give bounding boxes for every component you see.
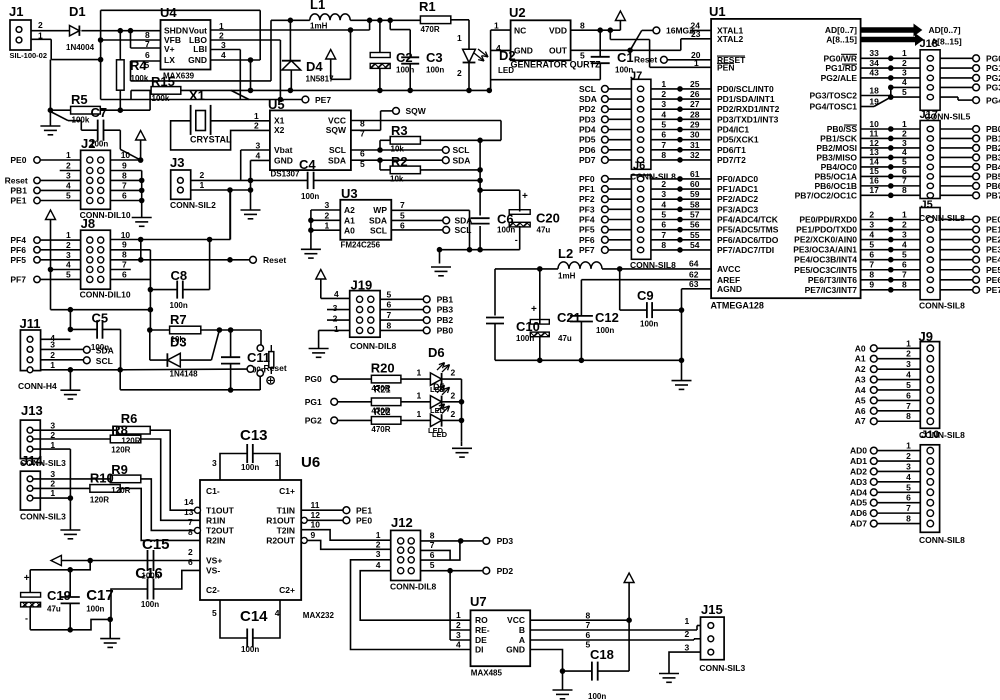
power arrow U7 (624, 573, 634, 583)
svg-text:100n: 100n (588, 692, 606, 700)
ground (132, 217, 152, 219)
svg-text:C4: C4 (299, 157, 316, 172)
junction (448, 568, 453, 573)
connector J14 (20, 471, 40, 510)
svg-text:2: 2 (333, 313, 338, 323)
J6 hole 2 (637, 186, 643, 191)
wire diagonal to VCC stem (120, 149, 140, 160)
J17 hole 7 (927, 183, 933, 188)
wire to J7 (608, 88, 631, 90)
vcc rail vertical (479, 140, 481, 215)
bus A[8..15] (861, 37, 918, 43)
svg-text:SIL-100-02: SIL-100-02 (10, 51, 48, 60)
svg-text:26: 26 (690, 89, 700, 99)
J7 hole 3 (637, 107, 643, 112)
svg-text:100n: 100n (91, 343, 109, 352)
svg-text:CRYSTAL: CRYSTAL (190, 135, 232, 145)
svg-text:1: 1 (325, 221, 330, 231)
svg-text:AGND: AGND (717, 284, 742, 294)
svg-text:PD2: PD2 (497, 566, 514, 576)
svg-text:PE1/PDO/TXD0: PE1/PDO/TXD0 (796, 225, 857, 235)
svg-text:6: 6 (122, 190, 127, 200)
J12 pin4 wire to RO (360, 571, 470, 621)
svg-text:7: 7 (869, 260, 874, 270)
terminal PE5 (940, 269, 973, 271)
svg-text:SDA: SDA (579, 94, 597, 104)
junction (228, 388, 233, 393)
svg-text:3: 3 (906, 359, 911, 369)
connector J6 (631, 175, 651, 259)
gnd line (440, 249, 520, 251)
svg-text:A2: A2 (344, 205, 355, 215)
wire A7 to J9 pin 8 (877, 420, 920, 422)
svg-text:PE5/OC3C/INT5: PE5/OC3C/INT5 (794, 265, 857, 275)
svg-text:2: 2 (219, 31, 224, 41)
svg-text:3: 3 (66, 250, 71, 260)
wire VFB node down to long line (100, 60, 102, 100)
svg-text:AD5: AD5 (850, 498, 867, 508)
svg-text:33: 33 (869, 48, 879, 58)
svg-text:CONN-SIL3: CONN-SIL3 (20, 458, 66, 468)
svg-text:C18: C18 (590, 647, 614, 662)
svg-text:20: 20 (691, 50, 701, 60)
svg-text:7: 7 (906, 401, 911, 411)
svg-text:CONN-H4: CONN-H4 (18, 381, 57, 391)
J17 hole 1 (927, 126, 933, 131)
svg-text:11: 11 (311, 500, 320, 510)
svg-text:J12: J12 (391, 515, 413, 530)
junction (679, 358, 684, 363)
svg-text:A0: A0 (855, 343, 866, 353)
svg-text:A2: A2 (855, 364, 866, 374)
wire A4 to J9 pin 5 (877, 389, 920, 391)
svg-text:5: 5 (66, 269, 71, 279)
svg-text:PD1/SDA/INT1: PD1/SDA/INT1 (717, 94, 775, 104)
wire A1 to J9 pin 2 (877, 358, 920, 360)
svg-text:A4: A4 (855, 385, 866, 395)
wire A pins gnd (310, 210, 312, 249)
svg-text:4: 4 (661, 199, 666, 209)
terminal PE6 (940, 279, 973, 281)
svg-text:PF2/ADC2: PF2/ADC2 (717, 194, 758, 204)
svg-text:C19: C19 (47, 588, 71, 603)
svg-text:1N4004: 1N4004 (66, 43, 95, 52)
svg-text:GENERATOR QURTZ: GENERATOR QURTZ (511, 60, 602, 70)
junction (68, 628, 73, 633)
wire AD6 to J10 pin 7 (877, 512, 920, 514)
J10 hole 7 (927, 510, 934, 517)
svg-text:55: 55 (690, 230, 700, 240)
wire U5 GND (251, 159, 270, 161)
svg-text:MAX232: MAX232 (303, 611, 335, 620)
svg-text:9: 9 (122, 240, 127, 250)
svg-text:4: 4 (66, 180, 71, 190)
wire A0 to J9 pin 1 (877, 347, 920, 349)
svg-text:3: 3 (685, 643, 690, 653)
wire to LED (401, 401, 431, 403)
svg-text:PB3: PB3 (437, 305, 454, 315)
svg-text:1N4148: 1N4148 (170, 370, 199, 379)
svg-text:PE0: PE0 (10, 155, 26, 165)
svg-text:4: 4 (275, 608, 280, 618)
svg-text:4: 4 (221, 50, 226, 60)
wire L1 right (350, 19, 420, 21)
svg-text:5: 5 (430, 560, 435, 570)
junction (88, 558, 93, 563)
svg-text:PF0: PF0 (579, 174, 595, 184)
svg-text:XTAL2: XTAL2 (717, 34, 744, 44)
svg-text:PD6/T1: PD6/T1 (717, 145, 746, 155)
ground (301, 248, 321, 250)
svg-text:PE0: PE0 (986, 215, 1000, 225)
J6 hole 7 (637, 237, 643, 242)
svg-text:PB1: PB1 (437, 294, 454, 304)
svg-text:SDA: SDA (369, 216, 387, 226)
svg-text:R1OUT: R1OUT (266, 516, 296, 526)
svg-text:4: 4 (902, 239, 907, 249)
svg-text:SDA: SDA (453, 156, 471, 166)
svg-text:AD1: AD1 (850, 456, 867, 466)
wire to J7 (608, 118, 631, 120)
svg-text:J2: J2 (81, 136, 95, 151)
junction (138, 158, 143, 163)
svg-text:PF1: PF1 (579, 184, 595, 194)
wire R2 right (420, 169, 480, 171)
J7 hole 2 (637, 96, 643, 101)
wire L2 right (602, 268, 620, 270)
J9 hole 4 (927, 376, 934, 383)
svg-text:GND: GND (274, 156, 293, 166)
junction (478, 188, 483, 193)
svg-text:+: + (531, 304, 537, 315)
wire LX to L1 (131, 60, 161, 62)
svg-text:Vout: Vout (189, 26, 207, 36)
J12 pin3 wire to DI (351, 560, 471, 650)
svg-text:6: 6 (145, 50, 150, 60)
svg-text:AD0: AD0 (850, 446, 867, 456)
junction (48, 108, 53, 113)
junction (118, 28, 123, 33)
svg-text:PD4/IC1: PD4/IC1 (717, 125, 749, 135)
svg-text:CONN-SIL2: CONN-SIL2 (170, 200, 216, 210)
svg-text:8: 8 (387, 320, 392, 330)
svg-text:24: 24 (691, 21, 701, 31)
terminal PG1 (940, 67, 973, 69)
power arrow U4 Vout (326, 50, 336, 60)
wire R5 left (50, 109, 70, 111)
svg-text:470R: 470R (371, 425, 390, 434)
wire VS+ line (61, 560, 200, 562)
wire rail up left (119, 370, 121, 390)
junction (538, 358, 543, 363)
svg-text:PF2: PF2 (579, 194, 595, 204)
connector J5 (920, 208, 940, 300)
J7 hole 6 (637, 137, 643, 142)
wire Reset line (120, 368, 247, 371)
terminal SQW (393, 108, 400, 115)
svg-text:PF5/ADC5/TMS: PF5/ADC5/TMS (717, 225, 779, 235)
junction (68, 568, 73, 573)
svg-text:CONN-SIL3: CONN-SIL3 (699, 663, 745, 673)
junction (248, 188, 253, 193)
svg-text:C12: C12 (595, 310, 619, 325)
svg-text:CONN-DIL10: CONN-DIL10 (80, 290, 131, 300)
svg-text:VS-: VS- (206, 566, 220, 576)
svg-text:J10: J10 (921, 429, 939, 441)
LED D6 (430, 373, 441, 385)
svg-text:VCC: VCC (328, 116, 346, 126)
svg-text:PG2: PG2 (986, 73, 1000, 83)
junction (68, 327, 73, 332)
terminal PB2 (940, 147, 973, 149)
wire D3 anode (180, 359, 211, 361)
svg-text:8: 8 (580, 21, 585, 31)
svg-text:2: 2 (456, 620, 461, 630)
svg-text:T2OUT: T2OUT (206, 526, 235, 536)
junction (478, 178, 483, 183)
wire C13 right (253, 454, 280, 481)
svg-text:A5: A5 (855, 395, 866, 405)
svg-text:C2+: C2+ (279, 585, 295, 595)
svg-text:6: 6 (400, 221, 405, 231)
svg-text:RO: RO (475, 615, 488, 625)
svg-text:PE0: PE0 (356, 516, 372, 526)
svg-text:2: 2 (325, 211, 330, 221)
svg-text:1: 1 (661, 79, 666, 89)
svg-text:PE1: PE1 (986, 225, 1000, 235)
svg-text:V+: V+ (164, 44, 175, 54)
wire VDD to PEN (609, 30, 611, 39)
svg-text:30: 30 (690, 130, 700, 140)
svg-text:PE2: PE2 (986, 235, 1000, 245)
J12 holes row 1 (398, 538, 404, 544)
wire to J6 (608, 198, 631, 200)
svg-text:63: 63 (689, 279, 699, 289)
svg-text:PE5: PE5 (986, 265, 1000, 275)
terminal PB1 (423, 296, 430, 303)
svg-text:B: B (519, 625, 525, 635)
svg-text:1: 1 (417, 409, 422, 419)
junction (487, 88, 492, 93)
svg-text:Reset: Reset (264, 363, 287, 373)
wire top feedback line (101, 9, 261, 11)
svg-text:7: 7 (122, 180, 127, 190)
power arrow J2 (136, 131, 146, 141)
svg-text:R1: R1 (419, 0, 436, 14)
svg-text:2: 2 (188, 547, 193, 557)
svg-text:SDA: SDA (455, 216, 473, 226)
junction (148, 307, 153, 312)
junction (288, 88, 293, 93)
wire to J6 (608, 229, 631, 231)
svg-text:A3: A3 (855, 375, 866, 385)
svg-text:2: 2 (685, 629, 690, 639)
wire J2 pins to gnd (141, 171, 143, 218)
svg-text:2: 2 (869, 209, 874, 219)
power arrow J19 (316, 270, 326, 280)
svg-text:PG3/TOSC2: PG3/TOSC2 (809, 91, 857, 101)
svg-text:3: 3 (376, 549, 381, 559)
svg-text:U6: U6 (301, 454, 320, 471)
wire R3 right (420, 139, 501, 141)
capacitor C1 (599, 30, 601, 57)
J5 hole 1 (927, 217, 933, 222)
svg-text:25: 25 (690, 79, 700, 89)
svg-text:LED: LED (430, 406, 446, 415)
svg-text:2: 2 (66, 161, 71, 171)
wire to J6 (608, 219, 631, 221)
wire J13.1 down (33, 448, 70, 450)
svg-text:R1IN: R1IN (206, 516, 225, 526)
svg-text:SHDN: SHDN (164, 26, 188, 36)
svg-text:3: 3 (869, 219, 874, 229)
svg-text:6: 6 (188, 557, 193, 567)
wire R9 to T2OUT (141, 479, 195, 531)
junction (627, 618, 632, 623)
svg-text:C3: C3 (426, 50, 443, 65)
wire R6 to T1OUT (150, 430, 194, 510)
svg-text:R21: R21 (374, 385, 391, 395)
svg-text:2: 2 (451, 390, 456, 400)
terminal Reset S1 (247, 366, 254, 373)
J2 holes row 4 (87, 187, 93, 193)
J11 pin4 wire (41, 338, 71, 340)
wire OUT to XTAL2 (680, 39, 682, 51)
terminal SCL (442, 147, 449, 154)
svg-text:2: 2 (451, 409, 456, 419)
terminal PE1 U6 (343, 507, 350, 514)
wire to J6 (608, 188, 631, 190)
svg-text:31: 31 (690, 140, 700, 150)
wire VFB branch down (100, 40, 102, 60)
wire R10 to R2IN (120, 488, 200, 540)
J6 hole 1 (637, 176, 643, 181)
svg-text:PE6: PE6 (986, 275, 1000, 285)
svg-text:8: 8 (122, 170, 127, 180)
svg-text:Reset: Reset (634, 55, 657, 65)
svg-text:32: 32 (690, 150, 700, 160)
J7 hole 7 (637, 147, 643, 152)
junction (378, 148, 383, 153)
terminal PE0 U6 (343, 517, 350, 524)
svg-text:T1IN: T1IN (277, 506, 295, 516)
J18 hole 2 (927, 65, 933, 70)
svg-text:PF5: PF5 (579, 225, 595, 235)
svg-text:64: 64 (689, 259, 699, 269)
svg-text:PB0: PB0 (437, 325, 454, 335)
wire AD1 to J10 pin 2 (877, 460, 920, 462)
junction (378, 88, 383, 93)
svg-text:120R: 120R (111, 486, 130, 495)
J8 holes row 3 (87, 257, 93, 263)
svg-text:A1: A1 (855, 354, 866, 364)
svg-text:1: 1 (275, 458, 280, 468)
wire C19 branch (30, 561, 90, 570)
wire to J7 (608, 149, 631, 151)
svg-text:9: 9 (122, 160, 127, 170)
wire AGND down (681, 289, 683, 361)
terminal SDA (442, 157, 449, 164)
svg-text:34: 34 (869, 58, 879, 68)
svg-text:PD0/SCL/INT0: PD0/SCL/INT0 (717, 84, 774, 94)
J9 hole 8 (927, 418, 934, 425)
junction (98, 57, 103, 62)
svg-text:7: 7 (661, 140, 666, 150)
svg-text:10k: 10k (390, 175, 404, 184)
svg-text:SCL: SCL (329, 145, 346, 155)
wire C4 right (314, 179, 481, 181)
svg-text:2: 2 (661, 89, 666, 99)
J5 hole 7 (927, 277, 933, 282)
svg-text:17: 17 (869, 185, 879, 195)
wire to J7 (608, 129, 631, 131)
svg-text:13: 13 (184, 507, 194, 517)
svg-text:J1: J1 (9, 4, 23, 19)
svg-text:1: 1 (200, 180, 205, 190)
junction (108, 617, 113, 622)
svg-text:PB7/OC2/OC1C: PB7/OC2/OC1C (795, 190, 857, 200)
power flag VS+ (51, 555, 61, 565)
svg-text:PF4: PF4 (579, 215, 595, 225)
junction (538, 267, 543, 272)
J19 pin1 wire (319, 329, 350, 331)
svg-text:5: 5 (902, 87, 907, 97)
terminal PG2 (940, 77, 973, 79)
J11 pin1 wire (41, 369, 121, 371)
J7 hole 8 (637, 157, 643, 162)
svg-text:5: 5 (902, 250, 907, 260)
J8 pin4 wire from vcc (51, 269, 81, 271)
svg-text:2: 2 (902, 219, 907, 229)
svg-text:PF4: PF4 (10, 235, 26, 245)
svg-text:1: 1 (417, 390, 422, 400)
svg-text:10: 10 (311, 520, 321, 530)
svg-text:7: 7 (906, 503, 911, 513)
svg-text:8: 8 (586, 610, 591, 620)
ground (309, 348, 329, 350)
svg-text:10: 10 (121, 230, 131, 240)
ground (461, 441, 463, 446)
terminal SDA U3 (443, 217, 450, 224)
svg-text:1: 1 (50, 488, 55, 498)
svg-text:8: 8 (906, 514, 911, 524)
svg-text:8: 8 (902, 280, 907, 290)
J12 holes row 2 (398, 547, 404, 553)
svg-text:A7: A7 (855, 416, 866, 426)
svg-text:PE3: PE3 (986, 245, 1000, 255)
svg-text:PG0: PG0 (986, 53, 1000, 63)
svg-text:X2: X2 (274, 125, 285, 135)
junction (148, 287, 153, 292)
J18 hole 5 (927, 94, 933, 99)
junction (378, 158, 383, 163)
wire to J6 (608, 178, 631, 180)
wire to J7 (608, 159, 631, 161)
svg-text:120R: 120R (111, 445, 130, 454)
terminal PB3 (940, 156, 973, 158)
long node line (101, 99, 281, 101)
svg-text:3: 3 (661, 99, 666, 109)
junction (68, 307, 73, 312)
svg-text:120R: 120R (121, 436, 140, 445)
svg-text:C20: C20 (536, 211, 560, 226)
junction (467, 88, 472, 93)
svg-text:10k: 10k (391, 145, 405, 154)
svg-text:2: 2 (376, 540, 381, 550)
terminal PG0 (940, 57, 973, 59)
wire U7 gnd (562, 671, 564, 690)
svg-text:PF7/ADC7/TDI: PF7/ADC7/TDI (717, 245, 774, 255)
